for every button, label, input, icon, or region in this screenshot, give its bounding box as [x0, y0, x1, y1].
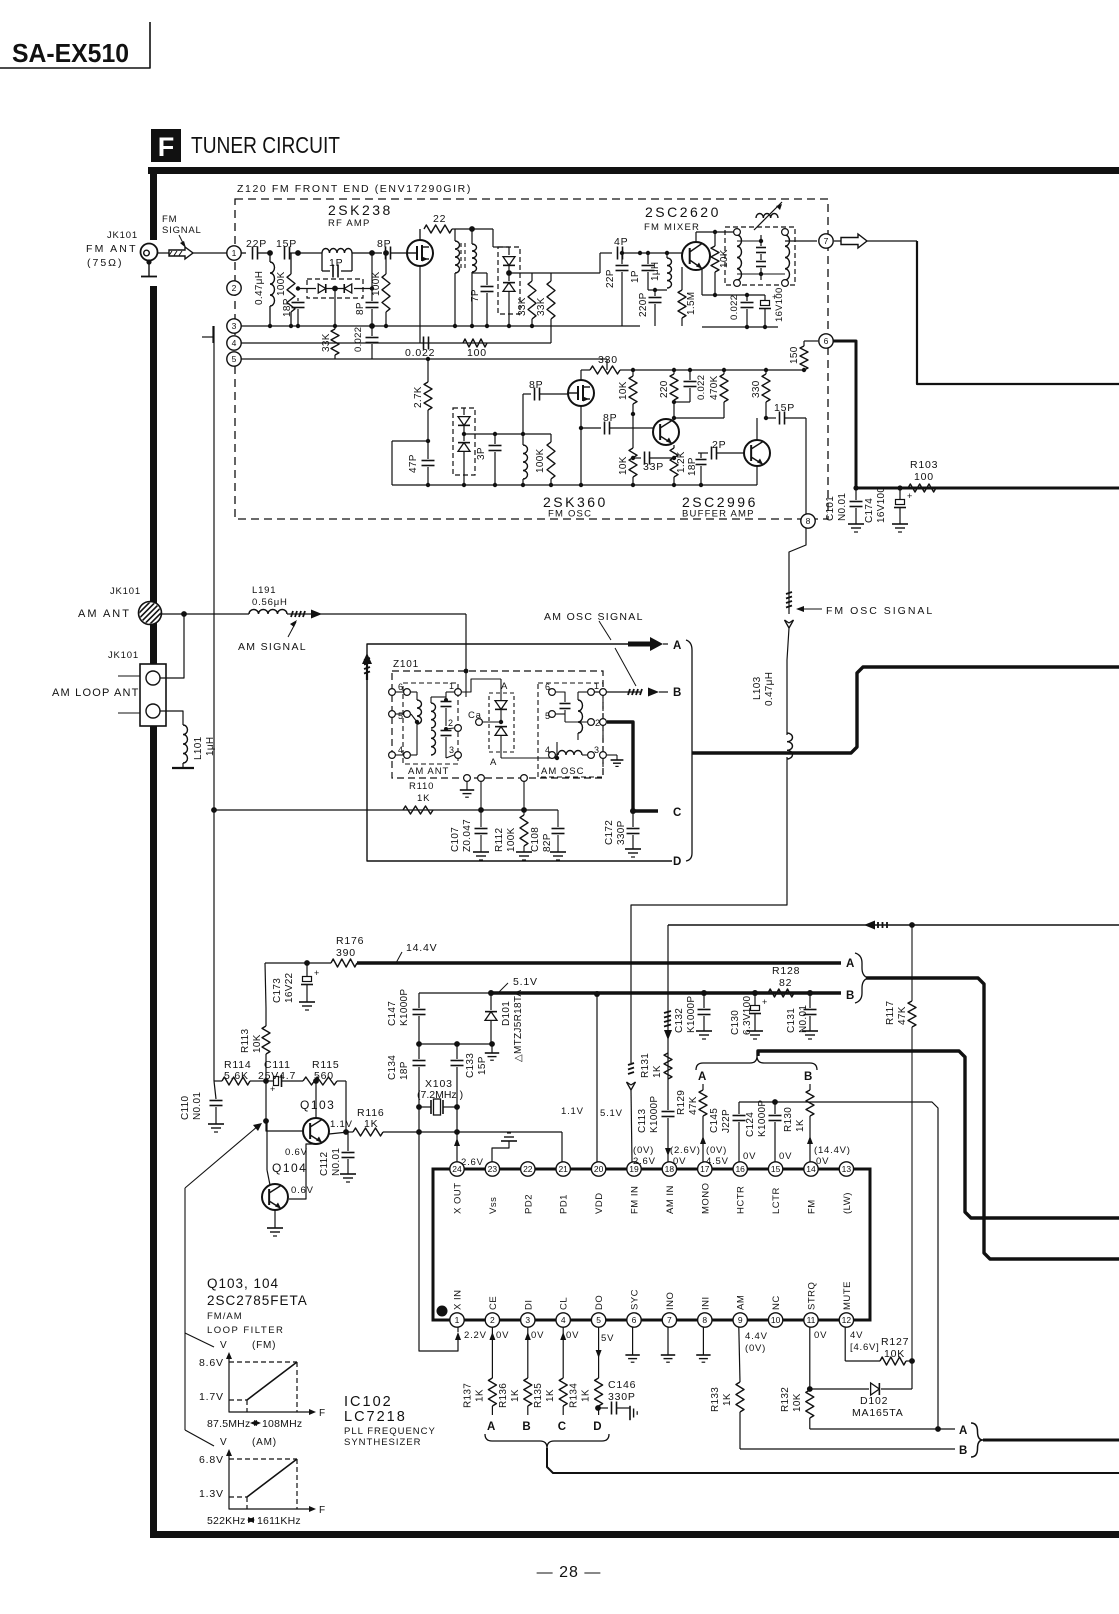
pin 8	[801, 514, 815, 528]
svg-text:16V22: 16V22	[284, 972, 295, 1003]
varactor dashed box 2	[498, 247, 520, 314]
svg-text:(0V): (0V)	[745, 1343, 766, 1354]
svg-text:470K: 470K	[709, 375, 720, 400]
A arrow	[628, 642, 651, 647]
pin 13 (LW)	[839, 1162, 853, 1176]
svg-text:FM IN: FM IN	[630, 1186, 641, 1214]
svg-text:522KHz: 522KHz	[207, 1515, 246, 1527]
svg-text:82P: 82P	[542, 833, 553, 852]
svg-text:5: 5	[232, 354, 237, 364]
svg-text:R127: R127	[881, 1336, 909, 1348]
wire C147 C134 join	[419, 1043, 492, 1045]
svg-text:(0V): (0V)	[633, 1145, 654, 1156]
svg-text:AM: AM	[736, 1295, 747, 1310]
svg-text:C131: C131	[786, 1008, 797, 1033]
pin 18 AM IN	[662, 1162, 676, 1176]
svg-text:220: 220	[659, 380, 670, 398]
svg-text:B: B	[846, 990, 855, 1002]
ground L101	[182, 763, 184, 768]
svg-text:3: 3	[525, 1315, 530, 1325]
wire R115 down	[345, 1081, 347, 1132]
svg-text:22: 22	[523, 1164, 533, 1174]
svg-text:6.3V100: 6.3V100	[742, 996, 753, 1035]
svg-text:STRQ: STRQ	[807, 1282, 818, 1310]
svg-text:[4.6V]: [4.6V]	[850, 1342, 880, 1353]
svg-text:8: 8	[806, 516, 811, 526]
svg-text:V: V	[220, 1340, 227, 1351]
svg-text:16: 16	[735, 1164, 745, 1174]
svg-text:C172: C172	[604, 820, 615, 845]
svg-text:0.022: 0.022	[405, 347, 435, 359]
svg-text:10: 10	[771, 1315, 781, 1325]
wire Q104 collector	[266, 1121, 268, 1170]
svg-text:C174: C174	[864, 498, 875, 523]
svg-text:C: C	[673, 807, 682, 819]
mixer IFT coil right	[785, 235, 790, 280]
svg-text:FM ANT: FM ANT	[86, 243, 138, 255]
svg-text:47K: 47K	[897, 1006, 908, 1025]
svg-text:R129: R129	[676, 1090, 687, 1115]
wire buffer emitter	[756, 466, 758, 485]
wire 470K to buffer base	[674, 417, 724, 419]
wire HCTR row	[739, 1102, 938, 1429]
pin 23 Vss	[485, 1162, 499, 1176]
AM LOOP ANT box	[140, 664, 166, 726]
svg-text:(AM): (AM)	[252, 1437, 277, 1448]
svg-text:R132: R132	[780, 1387, 791, 1412]
brace under ABCD	[485, 1434, 609, 1448]
svg-text:PD2: PD2	[523, 1194, 534, 1214]
svg-text:+: +	[772, 292, 777, 302]
svg-text:VDD: VDD	[594, 1192, 605, 1214]
svg-text:7: 7	[824, 236, 829, 246]
svg-text:1: 1	[232, 248, 237, 258]
svg-text:A: A	[673, 640, 682, 652]
svg-text:(75Ω): (75Ω)	[87, 257, 124, 269]
pin 6 SYC	[627, 1313, 641, 1327]
FM signal leader arrow	[179, 235, 184, 245]
svg-text:1K: 1K	[652, 1065, 663, 1078]
svg-text:AM LOOP ANT: AM LOOP ANT	[52, 687, 140, 699]
svg-text:L101: L101	[193, 736, 204, 760]
wire to coil	[452, 228, 455, 230]
pin 17 MONO	[698, 1162, 712, 1176]
svg-text:2: 2	[490, 1315, 495, 1325]
main frame left border upper	[150, 167, 157, 240]
svg-text:20: 20	[594, 1164, 604, 1174]
AM signal arrow	[291, 611, 293, 617]
svg-text:18P: 18P	[282, 298, 293, 317]
thick line A2 to right edge	[758, 1051, 1119, 1218]
svg-text:Vss: Vss	[488, 1197, 499, 1214]
svg-text:(FM): (FM)	[252, 1340, 276, 1351]
svg-text:C101: C101	[825, 496, 836, 521]
svg-text:C107: C107	[450, 827, 461, 852]
pin 10 NC	[768, 1313, 782, 1327]
wire to pin7	[785, 240, 817, 242]
wire varactors right	[509, 272, 532, 274]
pin 5	[227, 352, 241, 366]
svg-text:D: D	[593, 1421, 602, 1433]
main frame bottom border	[150, 1531, 1119, 1538]
AM OSC cap	[556, 692, 565, 702]
svg-text:K1000P: K1000P	[757, 1100, 768, 1137]
svg-text:8P: 8P	[377, 238, 391, 250]
svg-text:C147: C147	[387, 1001, 398, 1026]
svg-text:C132: C132	[674, 1008, 685, 1033]
svg-text:L191: L191	[252, 585, 276, 596]
svg-text:0.022: 0.022	[696, 375, 707, 400]
svg-text:Q103, 104: Q103, 104	[207, 1276, 279, 1291]
wire varactor to 33K	[334, 289, 336, 330]
svg-text:15P: 15P	[276, 238, 297, 250]
B bus 5.1V wire	[419, 992, 491, 994]
pin 7	[819, 234, 833, 248]
svg-text:1μH: 1μH	[650, 262, 661, 281]
svg-text:1K: 1K	[545, 1389, 556, 1402]
osc coil	[522, 434, 524, 445]
svg-text:1K: 1K	[795, 1119, 806, 1132]
center varactor bottom	[495, 727, 507, 736]
svg-text:6: 6	[398, 682, 404, 692]
svg-text:+: +	[907, 491, 912, 501]
IC102 outline	[433, 1169, 870, 1320]
tuning coil symbol	[756, 213, 778, 218]
svg-text:8.6V: 8.6V	[199, 1357, 224, 1369]
pin 1	[227, 246, 241, 260]
svg-text:108MHz: 108MHz	[262, 1418, 302, 1430]
svg-text:R136: R136	[498, 1383, 509, 1408]
svg-text:47P: 47P	[408, 454, 419, 473]
osc varactor dashed box	[453, 408, 475, 475]
svg-text:1.1V: 1.1V	[561, 1106, 584, 1117]
svg-text:2.6V: 2.6V	[633, 1156, 656, 1167]
svg-text:82: 82	[779, 977, 792, 989]
pin 8 INI	[698, 1313, 712, 1327]
svg-text:N0.01: N0.01	[192, 1092, 203, 1120]
wire pin5 to osc rail	[606, 359, 608, 370]
svg-text:6: 6	[824, 336, 829, 346]
svg-text:16V100: 16V100	[876, 487, 887, 523]
svg-text:C: C	[558, 1421, 567, 1433]
svg-text:24: 24	[452, 1164, 462, 1174]
wire FM jack to pin 1	[157, 252, 227, 254]
wire loop ant bottom	[160, 711, 183, 725]
wire R132 bottom to A out	[810, 1428, 938, 1430]
svg-text:JK101: JK101	[107, 230, 138, 241]
wire osc fet source	[580, 406, 582, 428]
svg-text:0.6V: 0.6V	[285, 1147, 308, 1158]
svg-text:100K: 100K	[371, 271, 382, 296]
wire loop ant top	[160, 614, 184, 678]
svg-text:PD1: PD1	[559, 1194, 570, 1214]
svg-text:22P: 22P	[246, 238, 267, 250]
svg-text:10K: 10K	[252, 1034, 263, 1053]
svg-text:1: 1	[594, 681, 600, 691]
svg-text:R128: R128	[772, 965, 800, 977]
svg-text:14: 14	[806, 1164, 816, 1174]
svg-text:100K: 100K	[276, 271, 287, 296]
thick line brace to right edge	[547, 1448, 1119, 1473]
output brace	[971, 1423, 983, 1457]
svg-text:R133: R133	[710, 1387, 721, 1412]
svg-text:18P: 18P	[399, 1061, 410, 1080]
svg-text:B: B	[959, 1445, 968, 1457]
mixer transformer dashed box	[725, 227, 795, 285]
svg-text:Q104: Q104	[272, 1161, 307, 1175]
svg-text:1: 1	[455, 1315, 460, 1325]
osc varactor diode top	[463, 408, 465, 415]
svg-text:4.4V: 4.4V	[745, 1331, 768, 1342]
up hatch arrow on box	[364, 658, 370, 660]
svg-text:1K: 1K	[474, 1389, 485, 1402]
svg-text:X IN: X IN	[453, 1290, 464, 1310]
svg-text:220P: 220P	[638, 292, 649, 317]
svg-text:L103: L103	[752, 676, 763, 700]
svg-text:FM OSC: FM OSC	[548, 509, 592, 520]
wire Q103 emitter	[329, 1132, 348, 1134]
pin 11 STRQ wire	[809, 1327, 811, 1386]
svg-text:C113: C113	[637, 1108, 648, 1133]
svg-text:5.1V: 5.1V	[600, 1108, 623, 1119]
main frame top border	[148, 167, 1119, 174]
svg-text:7: 7	[667, 1315, 672, 1325]
inductor 1P tank coil	[322, 249, 352, 254]
wire pin1 to varactor	[462, 679, 501, 692]
wire am ant down	[465, 614, 467, 672]
svg-text:CL: CL	[559, 1297, 570, 1310]
svg-text:1.3V: 1.3V	[199, 1488, 224, 1500]
svg-text:1K: 1K	[581, 1389, 592, 1402]
svg-text:IC102: IC102	[344, 1394, 393, 1410]
svg-text:22: 22	[433, 213, 446, 225]
svg-text:D101: D101	[501, 1001, 512, 1026]
svg-text:Z0.047: Z0.047	[462, 819, 473, 852]
varactor center dashed box	[489, 693, 514, 752]
svg-text:100K: 100K	[506, 827, 517, 852]
pin 9 AM wire	[739, 1327, 740, 1382]
svg-text:8: 8	[702, 1315, 707, 1325]
svg-text:0V: 0V	[531, 1330, 544, 1341]
svg-text:C124: C124	[745, 1112, 756, 1137]
wire pin4 row	[241, 342, 551, 344]
svg-text:FM: FM	[162, 214, 177, 225]
svg-text:R112: R112	[494, 827, 505, 852]
pin 5 DO	[591, 1313, 605, 1327]
svg-text:1611KHz: 1611KHz	[257, 1515, 301, 1527]
title corner border	[0, 22, 150, 68]
svg-text:SYC: SYC	[630, 1289, 641, 1310]
pin 4 CL	[556, 1313, 570, 1327]
svg-text:A: A	[698, 1071, 707, 1083]
FM OSC signal wire	[789, 528, 806, 592]
pin 6	[819, 334, 833, 348]
svg-text:330P: 330P	[608, 1391, 636, 1403]
svg-text:2.2V: 2.2V	[464, 1330, 487, 1341]
svg-text:13: 13	[842, 1164, 852, 1174]
pin 15 LCTR	[768, 1162, 782, 1176]
main frame left border lower	[150, 286, 157, 1538]
svg-text:J22P: J22P	[721, 1109, 732, 1133]
svg-text:0V: 0V	[779, 1151, 792, 1162]
svg-text:BUFFER AMP: BUFFER AMP	[682, 509, 755, 520]
svg-text:2: 2	[232, 283, 237, 293]
pin 3 DI	[521, 1313, 535, 1327]
pin 2	[227, 281, 241, 295]
svg-text:47K: 47K	[688, 1096, 699, 1115]
FET source down	[419, 266, 421, 343]
svg-text:1P: 1P	[630, 270, 641, 283]
svg-text:2SC2620: 2SC2620	[645, 204, 721, 220]
wire pin7 to right	[834, 240, 917, 242]
mixer emitter parts	[701, 268, 703, 295]
svg-text:87.5MHz: 87.5MHz	[207, 1418, 250, 1430]
pin 11 STRQ	[804, 1313, 818, 1327]
svg-text:SA-EX510: SA-EX510	[12, 38, 129, 68]
svg-text:RF AMP: RF AMP	[328, 218, 371, 229]
mixer IFT coil left	[737, 235, 742, 280]
svg-text:9: 9	[738, 1315, 743, 1325]
wire pin6 bus	[833, 341, 856, 488]
svg-text:C146: C146	[608, 1379, 636, 1391]
pin 23 Vss gnd	[492, 1141, 509, 1162]
svg-text:AM IN: AM IN	[665, 1185, 676, 1214]
varactor diode D left	[318, 284, 326, 293]
svg-text:11: 11	[807, 1315, 816, 1325]
pin 2 CE	[485, 1313, 499, 1327]
AM ANT coil small	[411, 691, 417, 693]
diode pair dashed box	[307, 279, 363, 298]
pin 21 PD1	[556, 1162, 570, 1176]
svg-text:LOOP FILTER: LOOP FILTER	[207, 1325, 284, 1336]
pin 19 FM IN	[627, 1162, 641, 1176]
svg-text:+: +	[314, 968, 319, 978]
AM ANT inner dashed box	[403, 683, 458, 764]
svg-text:FM MIXER: FM MIXER	[644, 222, 700, 233]
svg-text:3: 3	[449, 745, 455, 755]
AM block outer box	[367, 644, 672, 861]
svg-text:AM OSC: AM OSC	[541, 766, 584, 777]
wire Q104 base loop	[289, 1144, 316, 1199]
Z101 bottom gnd	[464, 775, 471, 782]
svg-text:C145: C145	[709, 1108, 720, 1133]
svg-text:V: V	[220, 1437, 227, 1448]
svg-text:390: 390	[336, 947, 356, 959]
svg-text:0V: 0V	[814, 1330, 827, 1341]
osc top rail	[633, 369, 804, 371]
svg-text:15P: 15P	[477, 1056, 488, 1075]
pin 7 INO	[662, 1313, 676, 1327]
svg-text:K1000P: K1000P	[399, 989, 410, 1026]
pin 22 PD2	[521, 1162, 535, 1176]
svg-text:LCTR: LCTR	[771, 1187, 782, 1214]
AM ANT transformer coils	[430, 697, 432, 703]
svg-text:K1000P: K1000P	[649, 1096, 660, 1133]
svg-text:Q103: Q103	[300, 1098, 335, 1112]
wire X103 to pin24	[456, 1107, 458, 1162]
svg-text:B: B	[804, 1071, 813, 1083]
svg-text:Z120 FM FRONT END (ENV1729: Z120 FM FRONT END (ENV17290GIR)	[237, 183, 472, 195]
svg-text:MA165TA: MA165TA	[852, 1407, 904, 1419]
svg-text:1.5M: 1.5M	[686, 292, 697, 315]
wire L103 down	[631, 757, 787, 1063]
svg-text:10K: 10K	[618, 456, 629, 475]
svg-text:5: 5	[596, 1315, 601, 1325]
brace A B over R129 R130	[696, 1056, 817, 1070]
svg-text:PLL FREQUENCY: PLL FREQUENCY	[344, 1426, 436, 1437]
wire varactor mid	[479, 721, 501, 723]
svg-text:0.6V: 0.6V	[291, 1185, 314, 1196]
svg-text:0.47μH: 0.47μH	[764, 672, 775, 706]
leader arrow to base	[185, 1126, 258, 1188]
svg-text:100: 100	[467, 347, 487, 359]
svg-text:D: D	[673, 856, 682, 868]
svg-text:4: 4	[561, 1315, 566, 1325]
svg-text:2SK238: 2SK238	[328, 202, 393, 218]
svg-text:TUNER CIRCUIT: TUNER CIRCUIT	[191, 132, 340, 158]
svg-text:3: 3	[594, 745, 600, 755]
varactor diode D right	[344, 284, 352, 293]
Z101 dashed box	[392, 671, 603, 778]
svg-text:15: 15	[771, 1164, 781, 1174]
pin 14 FM	[804, 1162, 818, 1176]
osc source rail	[392, 484, 757, 486]
svg-text:330P: 330P	[616, 820, 627, 845]
svg-text:0.022: 0.022	[729, 295, 740, 320]
AM OSC wires	[565, 721, 587, 723]
svg-text:K1000P: K1000P	[686, 996, 697, 1033]
AM ANT transformer caps	[445, 692, 447, 700]
svg-text:D102: D102	[860, 1395, 888, 1407]
svg-text:0.022: 0.022	[353, 327, 364, 352]
svg-text:FM: FM	[807, 1199, 818, 1214]
svg-text:10K: 10K	[884, 1348, 905, 1360]
wire AM IN top	[668, 924, 1119, 926]
svg-text:100: 100	[914, 471, 934, 483]
svg-text:R130: R130	[783, 1107, 794, 1132]
svg-text:R117: R117	[885, 1000, 896, 1025]
svg-text:R131: R131	[640, 1053, 651, 1078]
leader to A	[599, 621, 611, 640]
svg-text:0V: 0V	[743, 1151, 756, 1162]
varactor diode top	[508, 247, 510, 255]
svg-text:HCTR: HCTR	[736, 1186, 747, 1214]
wire varactor bottom to osc	[501, 742, 557, 758]
FM signal block arrow	[169, 247, 193, 259]
svg-text:C133: C133	[465, 1053, 476, 1078]
svg-text:JK101: JK101	[108, 650, 139, 661]
pin 20 VDD wire	[596, 994, 598, 1162]
pin 9 AM	[733, 1313, 747, 1327]
svg-text:DO: DO	[594, 1295, 605, 1310]
svg-text:1.7V: 1.7V	[199, 1391, 224, 1403]
center varactor top	[500, 679, 502, 700]
svg-text:1K: 1K	[510, 1389, 521, 1402]
svg-text:C112: C112	[319, 1151, 330, 1176]
svg-text:6: 6	[632, 1315, 637, 1325]
pin 3	[227, 319, 241, 333]
AM OSC coil v	[578, 691, 587, 693]
IFT coil right	[472, 244, 477, 272]
svg-text:SYNTHESIZER: SYNTHESIZER	[344, 1437, 422, 1448]
svg-text:23: 23	[488, 1164, 498, 1174]
svg-text:R135: R135	[533, 1383, 544, 1408]
svg-text:10K: 10K	[792, 1393, 803, 1412]
svg-text:1: 1	[449, 681, 455, 691]
svg-text:AM ANT: AM ANT	[408, 766, 449, 777]
svg-text:N0.01: N0.01	[837, 493, 848, 521]
svg-text:LC7218: LC7218	[344, 1409, 407, 1425]
